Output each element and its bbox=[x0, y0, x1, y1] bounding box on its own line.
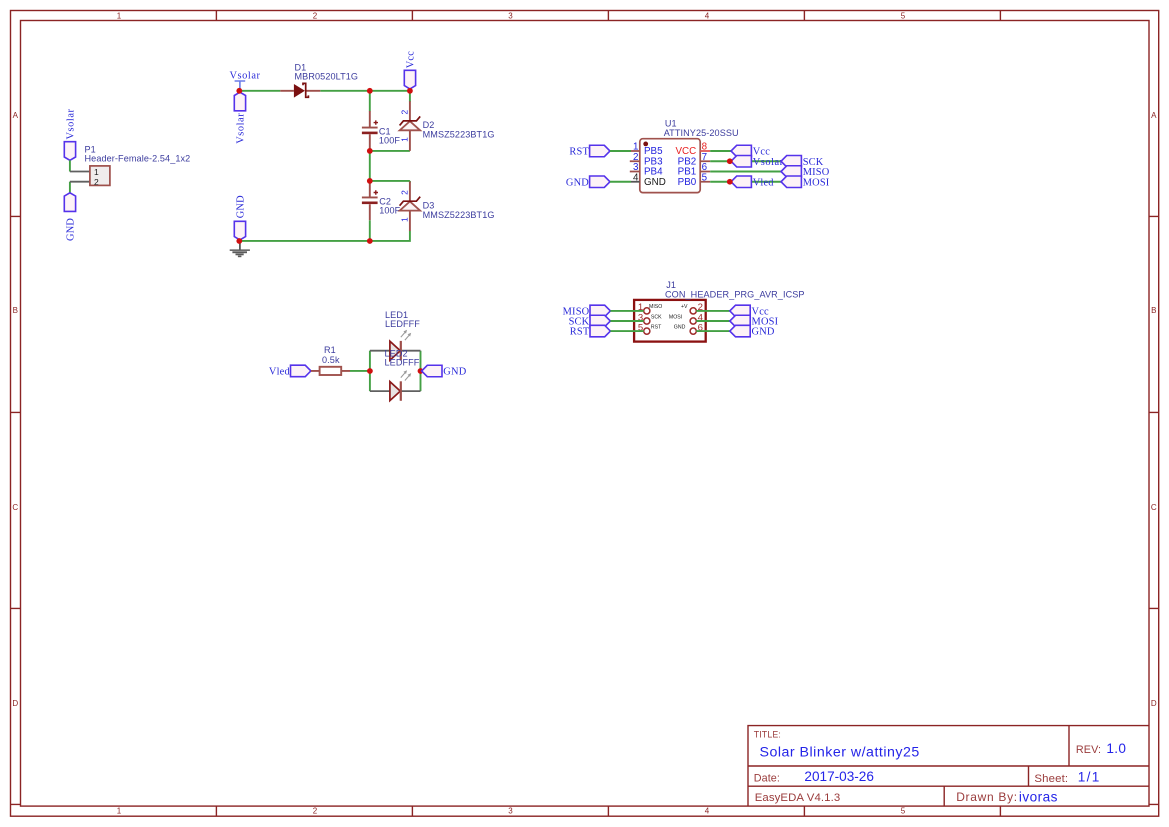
diode D1 bbox=[280, 62, 358, 97]
junction C1 top tap bbox=[367, 88, 373, 94]
wire J1 pin4 bbox=[696, 320, 730, 322]
wire J1 pin6 bbox=[696, 330, 730, 332]
svg-text:D: D bbox=[12, 699, 18, 708]
svg-text:TITLE:: TITLE: bbox=[754, 730, 781, 740]
svg-text:5: 5 bbox=[901, 11, 906, 20]
svg-text:Drawn By:: Drawn By: bbox=[956, 790, 1018, 804]
wire J1 pin2 bbox=[696, 310, 730, 312]
wire bridge right bbox=[420, 351, 422, 391]
wire C1 bottom rail bbox=[370, 150, 410, 152]
net flag Vcc bbox=[404, 51, 416, 89]
svg-text:LEDFFF: LEDFFF bbox=[385, 358, 420, 368]
svg-text:ATTINY25-20SSU: ATTINY25-20SSU bbox=[664, 128, 739, 138]
wire pin7 SCK bbox=[710, 160, 781, 162]
svg-text:4: 4 bbox=[705, 807, 710, 816]
svg-text:Vsolar: Vsolar bbox=[230, 71, 261, 82]
svg-text:3: 3 bbox=[508, 11, 513, 20]
connector J1 bbox=[634, 280, 804, 342]
net flag GND (LED) bbox=[422, 365, 467, 377]
net flag Vcc (U1) bbox=[731, 145, 770, 157]
svg-text:GND: GND bbox=[66, 218, 77, 241]
wire C2 top rail bbox=[370, 180, 410, 182]
title block bbox=[748, 726, 1149, 807]
resistor R1 bbox=[311, 345, 350, 375]
svg-text:2: 2 bbox=[94, 177, 99, 187]
U1 pin names bbox=[644, 146, 666, 188]
svg-text:C: C bbox=[12, 503, 18, 512]
svg-text:3: 3 bbox=[508, 807, 513, 816]
wire GND U1 bbox=[610, 181, 631, 183]
svg-text:PB0: PB0 bbox=[678, 177, 697, 188]
svg-text:GND: GND bbox=[566, 177, 589, 188]
net flag SCK bbox=[781, 156, 824, 168]
svg-text:Solar Blinker w/attiny25: Solar Blinker w/attiny25 bbox=[760, 744, 920, 760]
wire R1 to bridge bbox=[350, 370, 370, 372]
svg-text:REV:: REV: bbox=[1076, 744, 1101, 756]
svg-text:1: 1 bbox=[400, 137, 410, 142]
wire mid bbox=[369, 151, 371, 181]
net flag GND (J1) bbox=[730, 325, 775, 337]
svg-text:5: 5 bbox=[901, 807, 906, 816]
svg-text:GND: GND bbox=[644, 177, 666, 188]
wire pin6 MISO bbox=[710, 171, 781, 173]
ground symbol bbox=[230, 241, 250, 257]
svg-text:2: 2 bbox=[313, 11, 318, 20]
wire RST bbox=[610, 150, 631, 152]
svg-text:MMSZ5223BT1G: MMSZ5223BT1G bbox=[423, 130, 495, 140]
svg-text:D: D bbox=[1151, 699, 1157, 708]
svg-text:1.0: 1.0 bbox=[1106, 741, 1126, 756]
svg-text:1: 1 bbox=[117, 807, 122, 816]
svg-text:Vcc: Vcc bbox=[406, 51, 417, 69]
net flag MISO (J1) bbox=[563, 305, 611, 317]
svg-text:Vsolar: Vsolar bbox=[66, 108, 77, 139]
wire J1 pin3 bbox=[610, 320, 643, 322]
svg-text:Sheet:: Sheet: bbox=[1034, 773, 1068, 785]
svg-text:GND: GND bbox=[752, 327, 775, 338]
svg-text:100F: 100F bbox=[379, 135, 400, 145]
svg-text:C: C bbox=[1151, 503, 1157, 512]
svg-text:2: 2 bbox=[400, 110, 410, 115]
wire pin5 MOSI bbox=[710, 181, 781, 183]
junction at Vsolar node bbox=[236, 88, 242, 94]
svg-text:B: B bbox=[1151, 306, 1156, 315]
svg-text:Vsolar: Vsolar bbox=[753, 157, 784, 168]
svg-text:MOSI: MOSI bbox=[803, 177, 830, 188]
svg-text:Date:: Date: bbox=[754, 772, 780, 784]
svg-text:U1: U1 bbox=[665, 118, 677, 128]
wire P1 pin1 bbox=[69, 160, 71, 171]
wire bridge left bbox=[369, 351, 371, 391]
wire P1 pin2 bbox=[69, 182, 71, 193]
junction at GND node bbox=[236, 238, 242, 244]
svg-text:J1: J1 bbox=[666, 280, 676, 290]
net flag Vsolar (U1) bbox=[731, 156, 784, 168]
junction at Vcc node bbox=[407, 88, 413, 94]
net flag Vcc (J1) bbox=[730, 305, 769, 317]
junction pin5 bbox=[727, 179, 733, 185]
net flag GND (bottom left) bbox=[234, 195, 246, 240]
net flag Vsolar (top wire) bbox=[234, 92, 246, 144]
svg-text:R1: R1 bbox=[324, 345, 336, 355]
capacitor C1 bbox=[362, 111, 400, 151]
svg-text:Vled: Vled bbox=[269, 367, 291, 378]
junction bridge right bbox=[418, 368, 424, 374]
svg-text:2: 2 bbox=[400, 190, 410, 195]
svg-text:ivoras: ivoras bbox=[1019, 789, 1058, 804]
svg-text:GND: GND bbox=[236, 195, 247, 218]
svg-text:1: 1 bbox=[117, 11, 122, 20]
svg-text:2: 2 bbox=[313, 807, 318, 816]
wire C2 bottom bbox=[369, 220, 371, 241]
wire D3 bottom bbox=[239, 231, 410, 241]
svg-text:D3: D3 bbox=[423, 200, 435, 210]
svg-text:+V: +V bbox=[681, 304, 688, 310]
svg-text:1: 1 bbox=[94, 167, 99, 177]
net flag MOSI (U1) bbox=[781, 176, 830, 188]
net flag Vled (U1) bbox=[731, 176, 774, 188]
wire J1 pin1 bbox=[610, 310, 643, 312]
svg-text:RST: RST bbox=[651, 325, 662, 331]
svg-text:MMSZ5223BT1G: MMSZ5223BT1G bbox=[423, 210, 495, 220]
svg-text:A: A bbox=[1151, 111, 1157, 120]
net flag GND (U1) bbox=[566, 176, 610, 188]
svg-text:RST: RST bbox=[570, 327, 590, 338]
svg-text:MISO: MISO bbox=[649, 304, 662, 310]
svg-text:2017-03-26: 2017-03-26 bbox=[804, 769, 874, 784]
net flag Vled bbox=[269, 365, 311, 377]
svg-text:4: 4 bbox=[633, 172, 639, 183]
net flag RST (J1) bbox=[570, 325, 611, 337]
junction C2 bottom rail bbox=[367, 238, 373, 244]
zener D2 bbox=[400, 91, 495, 151]
svg-text:RST: RST bbox=[569, 147, 589, 158]
net label Vsolar bbox=[230, 71, 261, 89]
svg-text:Header-Female-2.54_1x2: Header-Female-2.54_1x2 bbox=[85, 153, 191, 163]
svg-text:LEDFFF: LEDFFF bbox=[385, 319, 420, 329]
net flag Vsolar (P1 top) bbox=[64, 108, 76, 160]
junction C1 bottom / D2 node bbox=[367, 148, 373, 154]
svg-text:5: 5 bbox=[702, 172, 708, 183]
connector P1 bbox=[70, 144, 190, 187]
svg-text:MOSI: MOSI bbox=[669, 314, 682, 320]
wire J1 pin5 bbox=[610, 330, 643, 332]
LED LED2 bbox=[370, 349, 421, 401]
wire pin8 bbox=[710, 150, 731, 152]
LED LED1 bbox=[370, 310, 421, 361]
net flag RST bbox=[569, 145, 610, 157]
net flag SCK (J1) bbox=[569, 315, 611, 327]
wire top rail bbox=[239, 90, 410, 92]
svg-text:Vsolar: Vsolar bbox=[236, 113, 247, 144]
svg-text:1/1: 1/1 bbox=[1078, 769, 1101, 784]
wire C1 top bbox=[369, 91, 371, 112]
svg-text:100F: 100F bbox=[379, 205, 400, 215]
net flag MISO (U1) bbox=[781, 166, 830, 178]
svg-text:D2: D2 bbox=[423, 120, 435, 130]
svg-text:CON_HEADER_PRG_AVR_ICSP: CON_HEADER_PRG_AVR_ICSP bbox=[665, 290, 805, 300]
svg-text:B: B bbox=[13, 306, 18, 315]
op-amp U1 body bbox=[640, 118, 739, 192]
svg-text:0.5k: 0.5k bbox=[322, 355, 340, 365]
svg-text:MBR0520LT1G: MBR0520LT1G bbox=[295, 71, 359, 81]
svg-text:SCK: SCK bbox=[651, 314, 662, 320]
capacitor C2 bbox=[362, 181, 401, 220]
svg-text:1: 1 bbox=[400, 217, 410, 222]
junction pin7 bbox=[727, 158, 733, 164]
svg-text:Vled: Vled bbox=[753, 177, 775, 188]
svg-text:GND: GND bbox=[674, 325, 686, 331]
junction C2 top / D3 node bbox=[367, 178, 373, 184]
junction bridge left bbox=[367, 368, 373, 374]
U1 pin numbers bbox=[633, 142, 639, 184]
svg-text:GND: GND bbox=[443, 367, 466, 378]
svg-text:EasyEDA V4.1.3: EasyEDA V4.1.3 bbox=[755, 792, 841, 804]
net flag MOSI (J1) bbox=[730, 315, 779, 327]
zener D3 bbox=[400, 181, 495, 231]
svg-text:A: A bbox=[13, 111, 19, 120]
U1 pins right bbox=[700, 150, 710, 152]
svg-text:4: 4 bbox=[705, 11, 710, 20]
U1 pins left bbox=[630, 151, 640, 172]
net flag GND (P1 bottom) bbox=[64, 193, 76, 241]
